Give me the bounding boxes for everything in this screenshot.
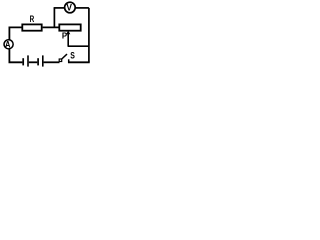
switch hinge post — [59, 59, 62, 62]
switch right contact tick — [68, 59, 70, 63]
wire battery to switch — [44, 61, 60, 63]
ammeter circle — [4, 40, 13, 49]
switch lever — [61, 54, 67, 59]
svg-text:P: P — [62, 31, 67, 40]
right vertical wire — [88, 8, 90, 62]
svg-text:V: V — [66, 2, 72, 13]
voltmeter branch left vertical — [53, 8, 55, 28]
rheostat wiper arrowhead — [66, 31, 70, 35]
rheostat wiper stem — [67, 33, 69, 47]
left vertical wire lower — [9, 49, 22, 62]
svg-text:S: S — [70, 50, 75, 60]
svg-text:A: A — [5, 40, 11, 50]
svg-text:R: R — [30, 14, 35, 24]
wire resistor to rheostat — [43, 26, 59, 28]
wire between cells — [29, 61, 38, 63]
rheostat box — [59, 24, 80, 30]
resistor R — [22, 24, 41, 30]
battery cell 1 short plate — [22, 58, 24, 65]
battery cell 2 short plate — [37, 58, 39, 65]
voltmeter branch left horizontal — [54, 7, 65, 9]
voltmeter V circle — [65, 2, 76, 13]
wire wiper to right vertical — [68, 45, 89, 47]
wire top-left corner — [9, 27, 21, 39]
battery cell 1 long plate — [27, 55, 29, 66]
voltmeter branch right horizontal — [75, 7, 89, 9]
bottom wire right segment — [68, 61, 90, 63]
battery cell 2 long plate — [42, 55, 44, 66]
